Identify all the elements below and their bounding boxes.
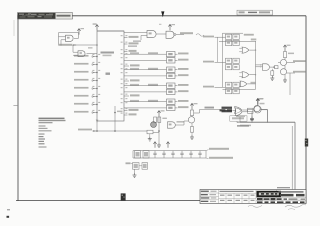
- pin wire y74.5 to gate: [124, 75, 167, 77]
- capacitor row: [126, 142, 234, 178]
- capacitor C4: [162, 151, 165, 158]
- net label dark pair: [220, 109, 233, 111]
- transistor Q5: [278, 58, 306, 66]
- wire long row y41.4: [219, 39, 256, 42]
- revision box top-right: [237, 10, 273, 15]
- +5V arrow above gate U2a: [77, 28, 84, 35]
- sheet note above block: [277, 187, 290, 188]
- resistor R11: [271, 69, 274, 76]
- wire vertical: [158, 129, 160, 143]
- wire collector to right: [194, 107, 222, 113]
- gate U6c OR: [240, 81, 256, 87]
- wire to title corner: [294, 123, 296, 190]
- wire down from output stage: [289, 73, 291, 95]
- pin stub y37.5: [124, 36, 139, 38]
- margin marks left: [7, 20, 19, 218]
- pin wire y100.5 to gate: [124, 100, 167, 102]
- resistor R9: [275, 66, 279, 69]
- notes text block: [39, 118, 66, 148]
- wire input row 1: [203, 36, 226, 38]
- gate U6b OR: [239, 72, 255, 78]
- zone marker triangle top: [159, 11, 164, 24]
- +5V arrow above U3b: [168, 24, 175, 30]
- gate U4a pair: [148, 52, 189, 64]
- ground G3: [148, 134, 152, 141]
- title block grid: [200, 190, 306, 204]
- lower right cluster: [220, 98, 309, 189]
- junction node: [158, 130, 160, 132]
- resistor R10: [283, 51, 294, 58]
- gates column U4: [148, 52, 189, 111]
- net label +5V row: [206, 148, 229, 151]
- resistor R7: [248, 110, 254, 114]
- pin numbers U1: [92, 35, 127, 114]
- pin wire row y80.5: [74, 79, 98, 81]
- gate U3b OR with bubble: [166, 31, 204, 38]
- +5V arrow: [256, 98, 265, 106]
- margin note right: [305, 139, 308, 147]
- pin wire y85.5 to gate: [124, 84, 167, 86]
- size and number cells: [257, 198, 305, 200]
- pin wire row y96.5: [74, 95, 98, 97]
- pin wire row y64.5: [74, 63, 98, 65]
- pin wire y55.5 to gate: [124, 52, 167, 54]
- ground G5: [190, 132, 194, 139]
- pin wire y70.5 to gate: [124, 68, 167, 70]
- company logo cell: [257, 191, 282, 197]
- +5V arrow at U1 top: [93, 23, 99, 30]
- note under wire: [240, 125, 251, 127]
- gate U5c quad: [226, 82, 240, 94]
- capacitor C7: [189, 151, 192, 158]
- pin stub y115: [124, 113, 137, 115]
- gate U6a OR: [239, 47, 255, 53]
- ground G2: [283, 75, 287, 83]
- right pin stubs of U1: [124, 36, 167, 116]
- gate U3a AND: [124, 31, 166, 40]
- ground G6: [250, 113, 254, 122]
- bus wires: [133, 151, 206, 158]
- pin wire row y72.5: [74, 71, 98, 73]
- pin wire row y104.5: [74, 103, 98, 105]
- wire input row 3: [203, 86, 226, 88]
- transistor Q7: [254, 106, 261, 113]
- capacitor C3: [153, 151, 156, 158]
- wire: [131, 163, 142, 173]
- wire vertical bus x222: [218, 33, 223, 87]
- gate U8: [168, 121, 185, 128]
- +5 label: [126, 162, 131, 164]
- +5V arrow: [157, 110, 164, 116]
- capacitor C6: [180, 151, 183, 158]
- ground G1: [270, 75, 274, 80]
- capacitor C2 boxed: [143, 151, 149, 158]
- wire: [233, 109, 236, 111]
- +5V arrow: [256, 98, 263, 106]
- ground G4: [157, 143, 161, 147]
- wire: [158, 117, 160, 129]
- gate U5a quad: [226, 34, 240, 45]
- wire output long: [237, 109, 295, 122]
- +5V arrow output stage: [283, 45, 290, 51]
- gate U9 OR: [235, 107, 250, 127]
- pin wire y81: [124, 79, 140, 81]
- gate U2b: [73, 45, 97, 57]
- gate column U5 (2nd): [203, 33, 254, 94]
- resistor R5: [190, 109, 193, 115]
- capacitor C9 boxed: [133, 163, 140, 170]
- wire row CLOCK to U1: [59, 44, 98, 46]
- sheet row text: [257, 201, 305, 203]
- capacitor C5: [171, 151, 174, 158]
- gate U2a with feedback: [59, 33, 79, 46]
- capacitor C10 boxed: [142, 163, 148, 170]
- wire long row to Q cluster: [78, 129, 147, 132]
- transistor Q3: [151, 122, 157, 128]
- wire long row y89.4: [223, 88, 256, 90]
- approvals text: [201, 191, 217, 202]
- pin wire y59.5 to gate: [124, 59, 167, 61]
- handwritten marks: [248, 205, 306, 210]
- U1 bottom pin wire: [96, 120, 99, 132]
- ground G7: [133, 173, 137, 177]
- drawing title text: [279, 191, 305, 196]
- wire to title corner: [294, 122, 296, 189]
- document stamp top-left: [18, 13, 73, 19]
- net label GND row: [206, 157, 233, 159]
- pin wire y96: [124, 94, 140, 96]
- pin wire row y112.5: [74, 111, 98, 113]
- transistor cluster Q3: [147, 110, 184, 147]
- left pin wires and labels of U1: [74, 55, 98, 113]
- resistor R3: [154, 117, 167, 122]
- wire parallel drop: [291, 126, 293, 189]
- pin wire row y88.5: [74, 87, 98, 89]
- resistor R1 label: [128, 40, 141, 47]
- transistor Q7: [254, 105, 260, 111]
- capacitor C8: [198, 151, 201, 158]
- pin wire y66: [124, 64, 140, 66]
- pin stub y44: [124, 42, 139, 44]
- resistor R6: [190, 123, 193, 132]
- wire input row 2: [203, 61, 226, 63]
- +5V arrow pair: [153, 142, 169, 148]
- transistor cluster Q4: [184, 103, 222, 139]
- transistor Q6: [280, 66, 306, 75]
- gate U4d pair: [148, 99, 189, 111]
- +5V arrow: [190, 103, 197, 109]
- net label dark pair: [222, 107, 233, 113]
- gate U4c pair: [148, 83, 189, 95]
- border frame: [16, 16, 306, 204]
- pin stub y110.5: [124, 109, 139, 111]
- IC U1 (game chip): [97, 31, 124, 121]
- gate U5b quad: [226, 58, 240, 70]
- wire output long: [240, 110, 295, 122]
- pin stub y51.5: [124, 50, 137, 52]
- right cluster: [219, 39, 306, 96]
- wire U1 top tie: [97, 30, 124, 32]
- boxed note label: [230, 116, 247, 121]
- gate U9 OR: [235, 108, 248, 116]
- pin wire row y56.5: [74, 55, 98, 57]
- revision table text: [220, 191, 255, 201]
- ground G6: [250, 112, 254, 121]
- transistor Q4: [188, 116, 194, 123]
- resistor R4: [147, 130, 159, 134]
- resistor R7: [248, 108, 254, 111]
- wire internal bus: [114, 106, 122, 132]
- zone stamp bottom edge: [121, 193, 126, 200]
- title block: [200, 187, 306, 210]
- +5V label mid: [88, 47, 93, 48]
- combiner gate U7: [256, 64, 275, 71]
- lower right cluster: [222, 98, 296, 189]
- wire top row label: [223, 33, 254, 35]
- capacitor C1 boxed: [135, 151, 141, 158]
- pin wire y104.5 to gate: [124, 107, 167, 109]
- pin wire y89.5 to gate: [124, 91, 167, 93]
- wire vertical x255.5: [255, 41, 256, 89]
- wire base input: [184, 121, 188, 125]
- gate U4b pair: [148, 67, 189, 79]
